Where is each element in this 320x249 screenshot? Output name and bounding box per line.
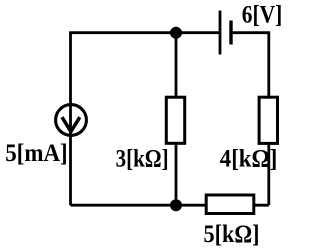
svg-text:5[kΩ]: 5[kΩ]: [204, 221, 260, 248]
svg-text:6[V]: 6[V]: [242, 2, 282, 29]
svg-text:5[mA]: 5[mA]: [5, 140, 67, 167]
svg-text:3[kΩ]: 3[kΩ]: [116, 146, 169, 173]
svg-text:4[kΩ]: 4[kΩ]: [220, 146, 277, 173]
